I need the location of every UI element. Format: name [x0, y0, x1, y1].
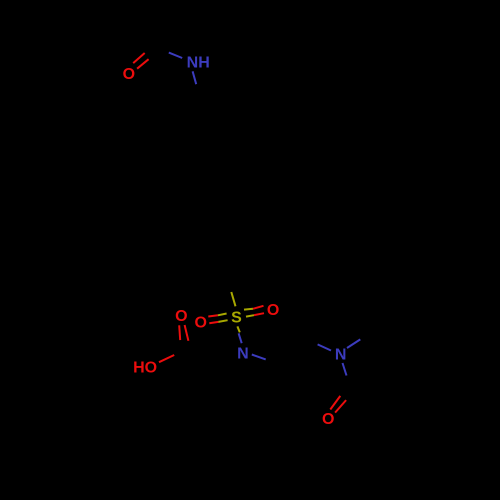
- svg-text:O: O: [322, 411, 334, 428]
- bond aryl-S (yellow half): [231, 292, 235, 306]
- bond C-N of acetamide (blue half): [169, 53, 182, 58]
- bond N-C(aryl) (blue half): [193, 71, 197, 84]
- bond N-CH2 (left N, blue half): [252, 355, 266, 360]
- svg-text:O: O: [267, 302, 279, 319]
- svg-text:S: S: [231, 310, 242, 327]
- bond HO-C (red half): [159, 355, 174, 362]
- svg-text:N: N: [237, 345, 249, 362]
- bond S-N yellow half: [237, 326, 239, 332]
- bond N-CH2 ring (right N, blue half): [347, 339, 360, 348]
- S=O right double bond yellow halves: [244, 309, 254, 317]
- acetamide C=O double bond (red halves): [133, 53, 148, 69]
- pyrrolidinone C=O double bond (red halves): [330, 396, 346, 413]
- bond S-N blue half: [239, 333, 242, 343]
- svg-text:O: O: [123, 66, 135, 83]
- svg-text:O: O: [194, 314, 206, 331]
- svg-text:O: O: [175, 308, 187, 325]
- svg-text:NH: NH: [187, 55, 210, 72]
- S=O left double bond red halves: [208, 315, 218, 323]
- acid C=O double bond (red halves): [179, 325, 188, 341]
- svg-text:HO: HO: [133, 359, 157, 376]
- bond N-C(=O) pyrrolidinone (blue half): [343, 363, 347, 376]
- S=O right double bond red halves: [253, 306, 264, 315]
- S=O left double bond yellow halves: [218, 314, 228, 322]
- bond CH2-N (right N, blue half): [318, 344, 331, 350]
- svg-text:N: N: [335, 346, 347, 363]
